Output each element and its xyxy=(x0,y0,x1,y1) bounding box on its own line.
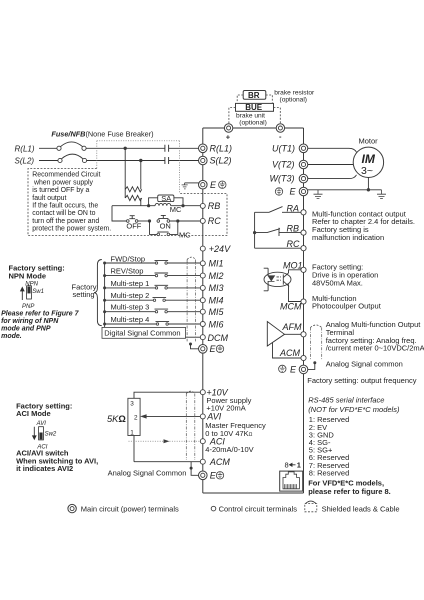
svg-text:R(L1): R(L1) xyxy=(15,144,35,153)
wire node down to OFF row xyxy=(112,206,127,221)
svg-text:+10V 20mA: +10V 20mA xyxy=(206,404,245,413)
terminal +10V xyxy=(200,390,205,395)
svg-text:AFM: AFM xyxy=(282,322,303,332)
svg-text:Shielded leads & Cable: Shielded leads & Cable xyxy=(322,504,400,513)
capacitor S phase xyxy=(165,157,169,164)
ground symbol circled (digital E) xyxy=(216,345,223,352)
svg-text:ACM: ACM xyxy=(279,348,301,358)
svg-text:E: E xyxy=(210,344,217,354)
wire collector to MO1 xyxy=(289,270,301,273)
wire MC node to RB xyxy=(183,205,200,207)
svg-text:RB: RB xyxy=(208,201,221,211)
wire R phase capacitor to terminal xyxy=(169,147,199,149)
wire R tap down xyxy=(124,148,126,186)
wire AVI to pot wiper xyxy=(146,415,200,417)
node Digital Signal Common xyxy=(102,327,186,338)
terminal W(T3) xyxy=(299,174,308,183)
text RS-485 annotation xyxy=(308,396,400,496)
svg-text:Multi-step 1: Multi-step 1 xyxy=(111,279,150,288)
svg-text:it indicates AVI2: it indicates AVI2 xyxy=(16,464,73,473)
svg-text:mode.: mode. xyxy=(1,333,22,340)
input common bus xyxy=(104,263,106,327)
dashed box recommended circuit xyxy=(28,169,227,236)
junction shield drain (analog) xyxy=(190,467,193,470)
junction R phase tap xyxy=(124,147,127,150)
wire MC aux to node2 xyxy=(170,221,178,234)
text MO1 annotation xyxy=(312,263,382,311)
svg-text:E: E xyxy=(290,365,297,375)
LED anode lead xyxy=(264,268,268,275)
terminal MI4 xyxy=(200,298,205,303)
svg-text:contact will be ON to: contact will be ON to xyxy=(32,210,95,217)
svg-text:RC: RC xyxy=(287,239,300,249)
phototransistor xyxy=(283,273,288,286)
coil MC (contactor coil) xyxy=(149,203,183,205)
svg-text:BUE: BUE xyxy=(245,103,263,112)
potentiometer 5K xyxy=(128,398,140,435)
svg-text:MI1: MI1 xyxy=(209,259,224,269)
terminal V(T2) xyxy=(299,160,308,169)
wire U to motor xyxy=(308,148,357,152)
resistor R2 (dropping) xyxy=(125,195,142,200)
svg-text:turn off the power and: turn off the power and xyxy=(32,218,99,225)
svg-text:when power supply: when power supply xyxy=(33,179,94,186)
svg-text:MI5: MI5 xyxy=(209,307,225,317)
terminal ACM (left) xyxy=(200,459,205,464)
svg-text:BR: BR xyxy=(248,91,260,100)
wire E to shield ground xyxy=(185,182,199,184)
svg-text:MI2: MI2 xyxy=(209,271,224,281)
svg-text:MCM: MCM xyxy=(280,302,302,312)
optocoupler U1 xyxy=(264,272,291,286)
svg-text:brake unit: brake unit xyxy=(236,112,265,119)
ground symbol circled (right of E) xyxy=(219,181,226,188)
svg-text:MI6: MI6 xyxy=(209,319,224,329)
svg-text:U(T1): U(T1) xyxy=(272,143,295,153)
wire S phase fuse to capacitor xyxy=(87,160,165,162)
op-amp AFM buffer xyxy=(267,322,284,347)
svg-text:Control circuit terminals: Control circuit terminals xyxy=(219,504,298,513)
svg-text:5KΩ: 5KΩ xyxy=(107,414,126,424)
pushbutton ON (NO) xyxy=(157,220,160,223)
svg-text:Recommended Circuit: Recommended Circuit xyxy=(32,172,100,179)
wire amp to ACM xyxy=(273,343,301,358)
svg-text:SA: SA xyxy=(161,194,171,203)
terminal MI1 xyxy=(200,261,205,266)
svg-text:MO1: MO1 xyxy=(283,260,303,270)
terminal AFM xyxy=(301,332,306,337)
svg-text:MI3: MI3 xyxy=(209,283,224,293)
wire dashed BR to BUE left xyxy=(237,95,243,103)
svg-text:8: Reserved: 8: Reserved xyxy=(309,468,349,477)
legend main circuit terminal icon xyxy=(68,504,76,512)
motor frame stem xyxy=(367,178,369,190)
svg-text:2: 2 xyxy=(134,414,138,421)
text please refer note xyxy=(1,310,80,340)
svg-text:REV/Stop: REV/Stop xyxy=(111,267,144,276)
wire S phase to fuse xyxy=(39,160,58,162)
terminal R(L1) xyxy=(199,144,208,153)
svg-text:NPN Mode: NPN Mode xyxy=(9,271,47,280)
wire top bus xyxy=(203,127,304,129)
svg-text:Motor: Motor xyxy=(359,137,379,146)
svg-text:ON: ON xyxy=(160,222,171,231)
LED inside xyxy=(268,276,274,282)
wire shield drain to E (analog) xyxy=(191,462,198,475)
svg-text:RA: RA xyxy=(287,203,300,213)
svg-text:PNP: PNP xyxy=(22,304,34,310)
wire R phase to fuse xyxy=(39,147,57,149)
wire emitter to MCM xyxy=(289,286,301,302)
terminal U(T1) xyxy=(299,144,308,153)
svg-text:S(L2): S(L2) xyxy=(210,156,232,166)
shielded cable symbol (analog) xyxy=(186,394,195,461)
svg-text:MC: MC xyxy=(179,230,191,239)
svg-text:MI4: MI4 xyxy=(209,296,224,306)
svg-text:mode and PNP: mode and PNP xyxy=(1,325,51,332)
svg-text:Multi-step 2: Multi-step 2 xyxy=(111,291,150,300)
svg-text:E: E xyxy=(290,187,297,197)
shielded cable symbol (AFM meter) xyxy=(310,328,321,360)
wire E earth run xyxy=(308,189,382,191)
svg-text:RS-485 serial interface: RS-485 serial interface xyxy=(308,396,384,405)
connector RJ45 xyxy=(280,460,303,491)
svg-text:Multi-step 3: Multi-step 3 xyxy=(111,303,150,312)
junction motor ground xyxy=(367,188,370,191)
ground symbol circled (left of right E) xyxy=(275,188,282,195)
svg-text:E: E xyxy=(210,180,217,190)
ground symbol (motor end) xyxy=(377,190,386,199)
svg-text:3~: 3~ xyxy=(361,165,373,177)
text AFM annotation xyxy=(307,320,424,385)
terminal +24V xyxy=(200,246,205,251)
terminal E (digital earth) xyxy=(199,345,208,354)
svg-text:48V50mA Max.: 48V50mA Max. xyxy=(312,278,363,287)
terminal MI5 xyxy=(200,309,205,314)
shielded cable symbol (digital) xyxy=(187,260,196,342)
junction node2 xyxy=(176,219,179,222)
fuse/NFB R phase xyxy=(57,146,61,150)
brake unit BUE xyxy=(236,103,274,111)
svg-text:Sw2: Sw2 xyxy=(45,431,57,437)
svg-text:R(L1): R(L1) xyxy=(210,144,233,154)
svg-text:Digital Signal Common: Digital Signal Common xyxy=(104,329,180,338)
svg-text:3: 3 xyxy=(130,400,134,407)
wire pot pin1 to ACM xyxy=(134,436,200,462)
wire relay common bus xyxy=(254,212,256,248)
svg-text:please refer to figure 8.: please refer to figure 8. xyxy=(308,487,391,496)
wire dashed BUE to - terminal xyxy=(274,108,281,124)
surge absorber SA xyxy=(149,198,158,206)
svg-text:MC: MC xyxy=(170,205,182,214)
contact RB (NC) xyxy=(255,228,301,236)
svg-text:setting: setting xyxy=(73,290,95,299)
svg-text:IM: IM xyxy=(362,152,376,166)
junction S phase tap xyxy=(139,159,142,162)
text relay annotation xyxy=(312,209,415,242)
junction shield drain (AFM) xyxy=(313,361,316,364)
ground symbol (near E) xyxy=(314,190,323,199)
wire resistor output to node xyxy=(112,198,149,206)
switch Sw1 (NPN/PNP) xyxy=(21,286,32,300)
terminal S(L2) xyxy=(199,156,208,165)
capacitor R phase xyxy=(165,145,169,152)
wire V to motor xyxy=(308,164,354,166)
switch Sw2 (ACI/AVI) xyxy=(33,427,44,440)
svg-text:Sw1: Sw1 xyxy=(32,289,44,295)
svg-text:1: 1 xyxy=(130,429,134,436)
terminal E (analog out earth) xyxy=(299,365,308,374)
terminal RB (right) xyxy=(301,230,306,235)
terminal ACI xyxy=(200,439,205,444)
brace factory setting xyxy=(94,260,102,326)
terminal E (right power earth) xyxy=(299,187,308,196)
wire DSC box to DCM xyxy=(186,336,201,338)
wire pot pin3 to +10V xyxy=(134,392,200,398)
wire amp to AFM xyxy=(285,333,301,335)
wire S tap down xyxy=(140,161,142,187)
wire dashed BUE to + terminal xyxy=(229,108,236,124)
terminal RA xyxy=(301,210,306,215)
svg-text:Analog Signal common: Analog Signal common xyxy=(326,360,403,369)
svg-text:fault output: fault output xyxy=(32,195,66,202)
svg-text:for wiring of NPN: for wiring of NPN xyxy=(1,318,59,325)
wire dashed ACI option xyxy=(129,440,164,442)
legend shielded leads icon xyxy=(305,501,317,512)
LED cathode lead xyxy=(264,281,268,291)
junction MC coil left node xyxy=(147,204,150,207)
text ACI/AVI switch note xyxy=(16,449,98,473)
wire node1 to MC aux branch xyxy=(150,221,158,234)
terminal RC (left) xyxy=(200,218,205,223)
motor IM 3~ xyxy=(353,147,383,177)
ground symbol circled (analog E) xyxy=(216,472,223,479)
terminal RC (right) xyxy=(301,246,306,251)
wire bottom bus xyxy=(203,492,304,494)
svg-text:Multi-step 4: Multi-step 4 xyxy=(111,315,150,324)
svg-text:Factory setting: output freque: Factory setting: output frequency xyxy=(307,376,416,385)
junction shield drain (digital) xyxy=(189,343,192,346)
svg-text:If the fault occurs, the: If the fault occurs, the xyxy=(32,203,98,210)
wire relay bus to RC xyxy=(255,247,301,249)
svg-text:brake resistor: brake resistor xyxy=(274,90,315,97)
wire W to motor xyxy=(308,175,357,179)
junction MC right node xyxy=(181,204,184,207)
contact MC aux (NO) xyxy=(157,233,160,236)
terminal MCM xyxy=(301,299,306,304)
svg-text:+24V: +24V xyxy=(209,244,231,254)
terminal MI6 xyxy=(200,322,205,327)
svg-text:8: 8 xyxy=(285,460,289,469)
svg-text:0 to 10V 47KΩ: 0 to 10V 47KΩ xyxy=(205,429,252,438)
svg-text:RC: RC xyxy=(208,216,221,226)
svg-text:/current meter 0~10VDC/2mA.: /current meter 0~10VDC/2mA. xyxy=(326,344,424,353)
junction relay bus RB xyxy=(253,231,256,234)
terminal E (analog earth) xyxy=(199,471,208,480)
svg-text:Please refer to Figure 7: Please refer to Figure 7 xyxy=(1,310,80,317)
svg-text:Photocoulper Output: Photocoulper Output xyxy=(312,302,382,311)
resistor R1 (dropping) xyxy=(125,187,142,192)
terminal MO1 xyxy=(301,267,306,272)
svg-text:ACI Mode: ACI Mode xyxy=(16,409,51,418)
svg-text:AVI: AVI xyxy=(206,412,222,422)
terminal MI2 xyxy=(200,273,205,278)
svg-text:(optional): (optional) xyxy=(280,97,308,104)
legend control circuit terminal icon xyxy=(211,506,216,511)
wire shield drain to E xyxy=(308,363,315,370)
svg-text:malfunction indication: malfunction indication xyxy=(312,233,384,242)
pushbutton OFF (NC) xyxy=(127,220,130,223)
svg-text:RB: RB xyxy=(287,224,300,234)
svg-text:V(T2): V(T2) xyxy=(272,160,295,170)
wire OFF to node1 xyxy=(138,220,150,222)
fuse/NFB S phase xyxy=(58,158,62,162)
svg-text:protect the power system.: protect the power system. xyxy=(32,226,111,233)
wire S phase capacitor to terminal xyxy=(169,160,199,162)
ground symbol circled (left of analog E) xyxy=(279,365,286,372)
svg-text:is turned OFF by a: is turned OFF by a xyxy=(32,187,89,194)
terminal AVI xyxy=(200,414,205,419)
svg-text:+: + xyxy=(226,133,231,142)
terminal MI3 xyxy=(200,285,205,290)
wire left bus xyxy=(202,128,204,493)
svg-text:S(L2): S(L2) xyxy=(15,157,35,166)
dash-dot shield box (input filter) xyxy=(97,141,180,194)
brake resistor BR xyxy=(243,91,266,100)
ground symbol (shield, left of E) xyxy=(182,183,188,189)
wire dashed BR to BUE right xyxy=(266,95,273,103)
svg-text:(optional): (optional) xyxy=(239,120,266,127)
svg-text:(NOT for VFD*E*C models): (NOT for VFD*E*C models) xyxy=(308,405,400,414)
text recommended circuit note xyxy=(32,172,111,233)
junction node1 xyxy=(148,219,151,222)
svg-text:Main circuit (power) terminals: Main circuit (power) terminals xyxy=(81,504,179,513)
terminal - (brake) xyxy=(276,124,284,132)
text analog terminal annotation xyxy=(205,396,266,454)
svg-text:OFF: OFF xyxy=(126,221,141,230)
svg-text:4-20mA/0-10V: 4-20mA/0-10V xyxy=(205,445,253,454)
wire right bus xyxy=(303,128,305,493)
terminal + (brake) xyxy=(224,124,232,132)
svg-text:FWD/Stop: FWD/Stop xyxy=(111,254,146,263)
terminal ACM (right) xyxy=(301,355,306,360)
terminal DCM xyxy=(200,335,205,340)
svg-text:E: E xyxy=(210,471,217,481)
terminal E (left power earth) xyxy=(199,180,208,189)
contact RA (NO) xyxy=(255,207,301,213)
wire node2 to RC xyxy=(178,220,201,222)
terminal RB (left) xyxy=(200,203,205,208)
svg-text:1: 1 xyxy=(297,460,301,469)
svg-text:Analog Signal Common: Analog Signal Common xyxy=(108,469,187,478)
svg-text:W(T3): W(T3) xyxy=(270,174,295,184)
wire shield drain to E (digital) xyxy=(191,344,199,349)
svg-text:Fuse/NFB(None Fuse Breaker): Fuse/NFB(None Fuse Breaker) xyxy=(51,129,153,138)
wire between resistors xyxy=(125,186,141,198)
wire R phase fuse to capacitor xyxy=(86,147,165,149)
svg-text:DCM: DCM xyxy=(208,333,229,343)
svg-text:ACM: ACM xyxy=(209,457,231,467)
